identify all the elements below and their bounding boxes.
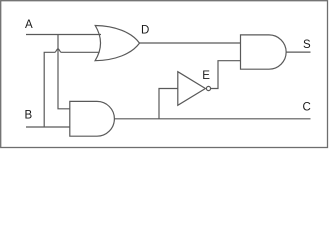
or-gate U1 [95, 26, 139, 61]
and-gate U2 (bottom) [70, 101, 115, 136]
wire A input [26, 34, 101, 36]
and-gate U4 (right) [241, 35, 287, 69]
svg-text:S: S [303, 39, 311, 51]
wire vertical from node A-line down to AND1 [58, 35, 70, 109]
svg-text:D: D [141, 24, 149, 36]
wire from B-line up to OR lower input with hop over vertical [44, 49, 99, 127]
inverter U3 triangle [178, 72, 206, 106]
svg-text:C: C [303, 101, 311, 113]
wire B input [26, 126, 70, 128]
svg-text:B: B [25, 110, 33, 122]
svg-text:E: E [202, 70, 210, 82]
wire from node on C line up to inverter input [159, 89, 178, 119]
wire C: AND1 output to right edge [114, 118, 310, 120]
wire S output [286, 51, 310, 53]
svg-text:A: A [25, 19, 33, 31]
inverter bubble [206, 86, 210, 90]
wire D: OR output to AND2 top input [140, 42, 241, 44]
border frame [1, 1, 328, 148]
wire E: inverter output up to AND2 lower input [211, 61, 241, 89]
